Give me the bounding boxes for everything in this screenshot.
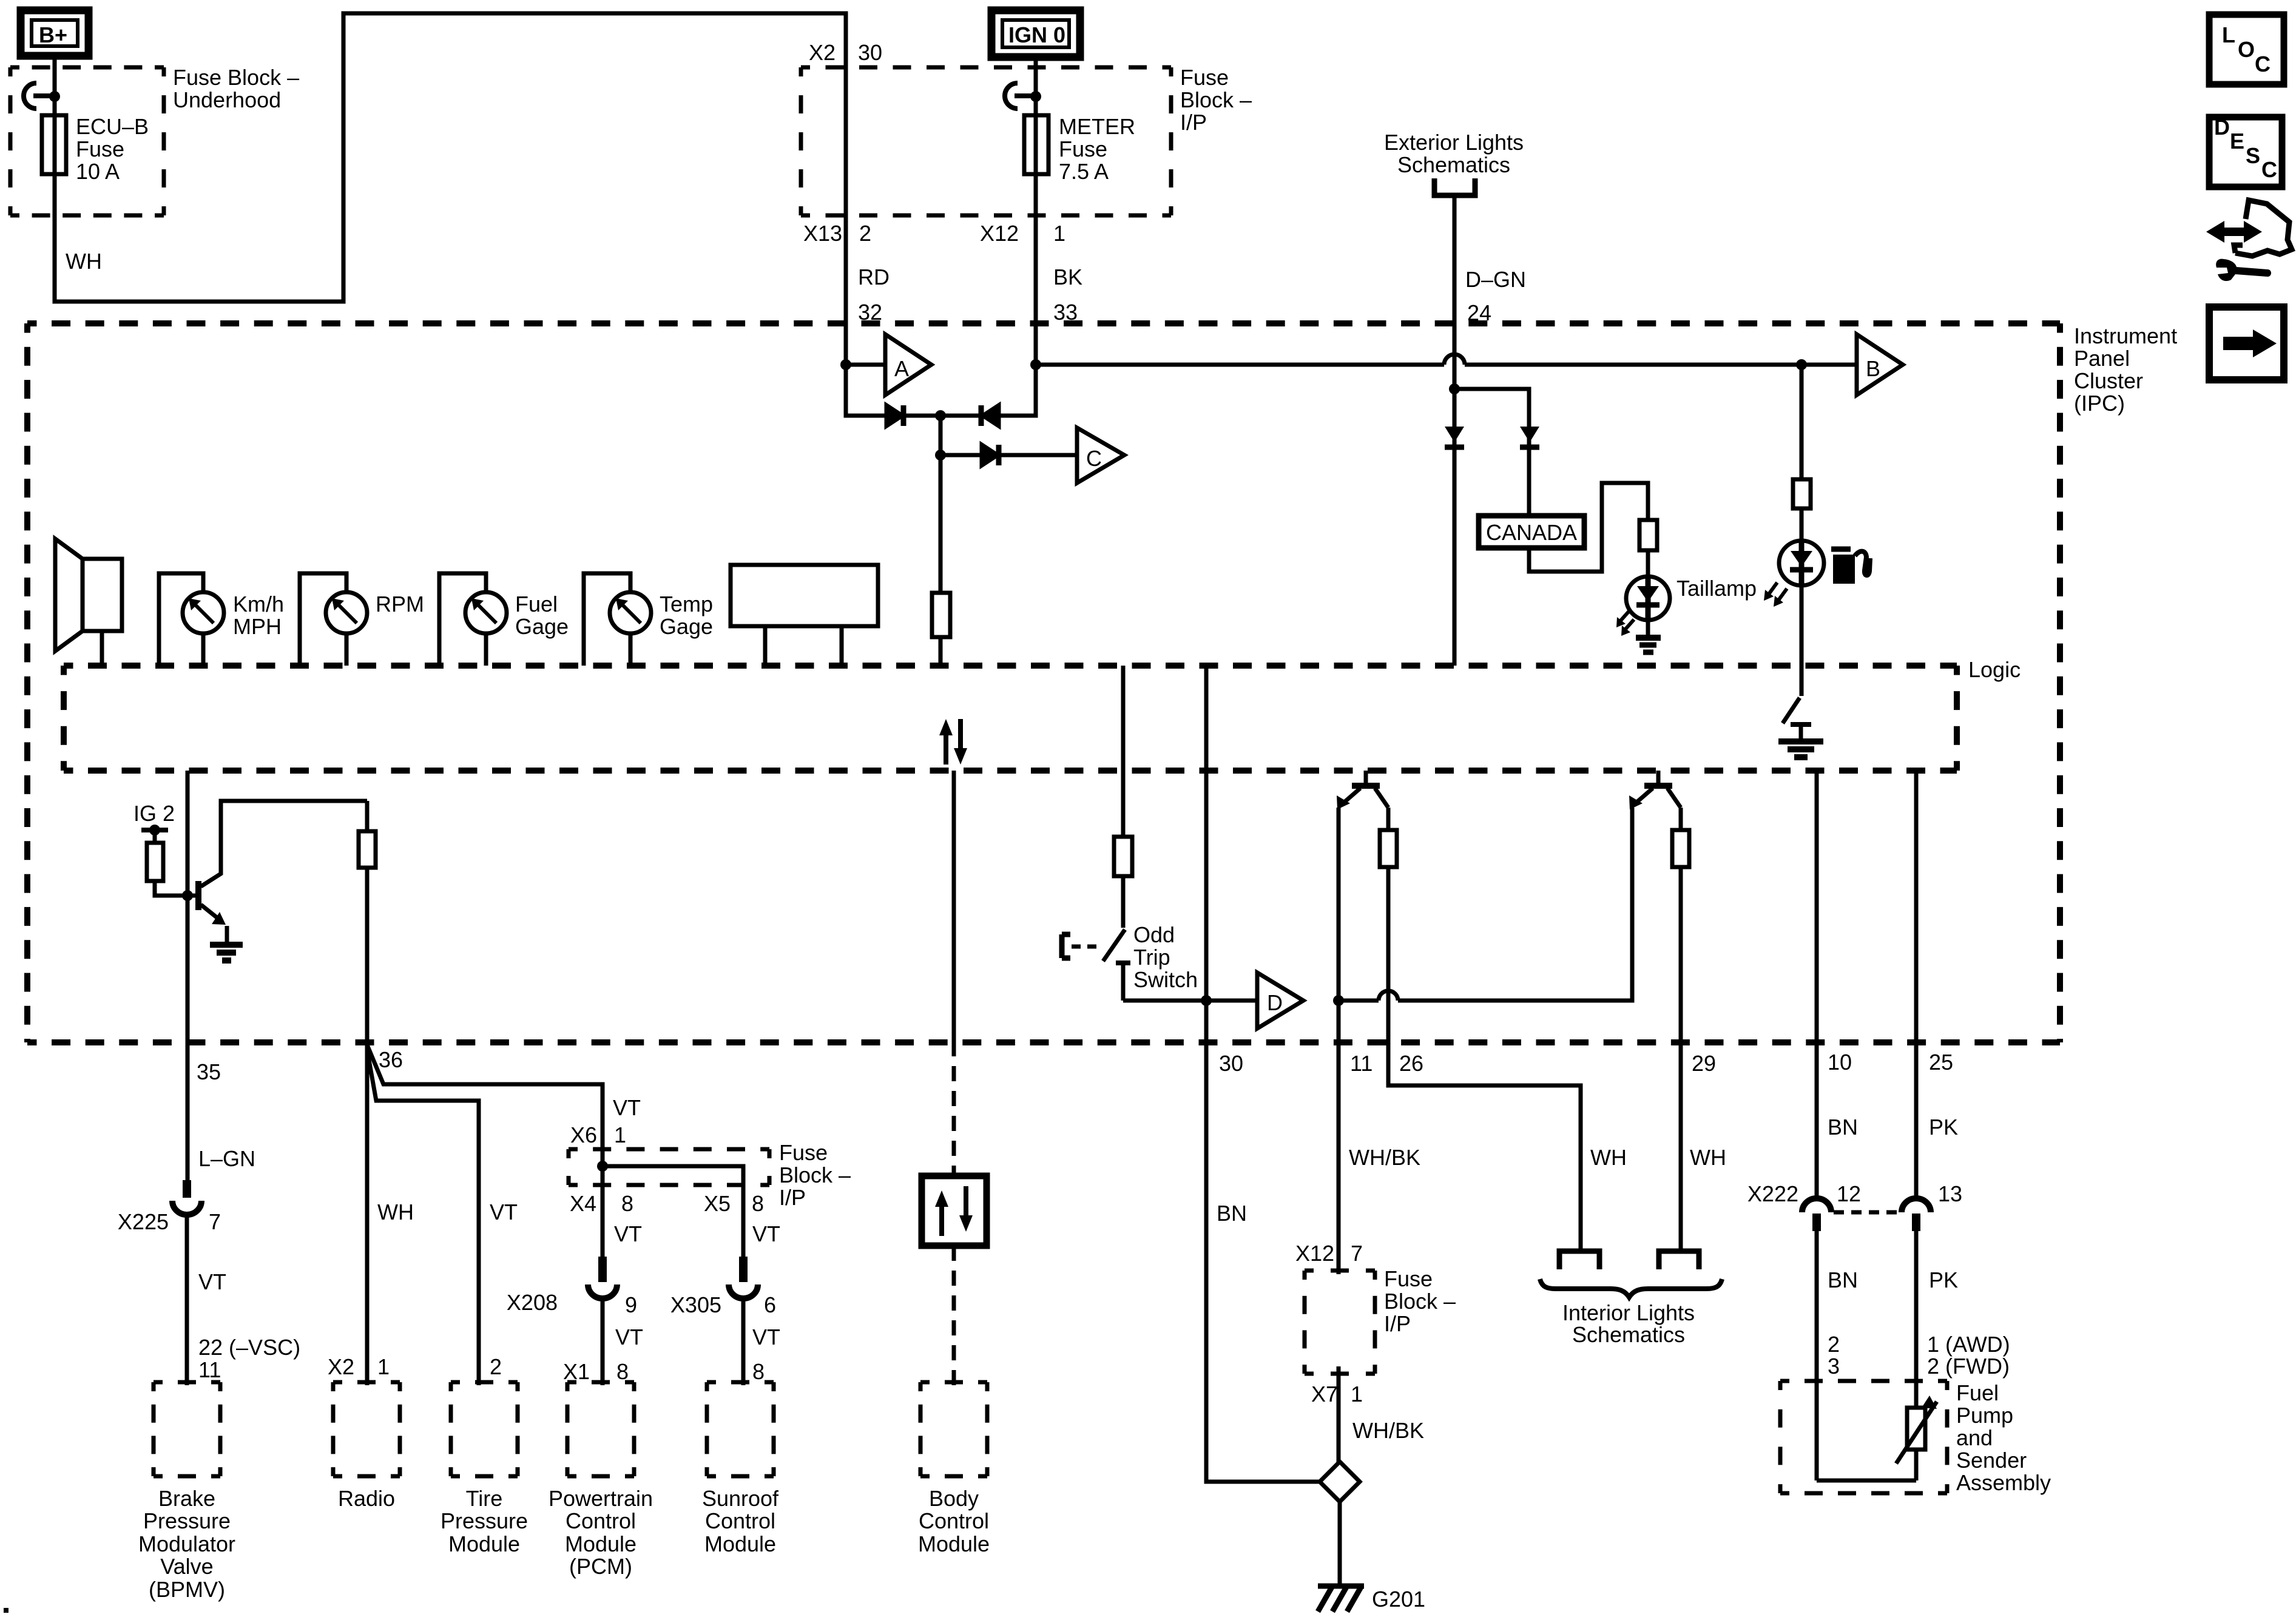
wire odd trip to D (1123, 999, 1257, 1003)
svg-text:7: 7 (209, 1209, 221, 1234)
node B+ power symbol (21, 10, 89, 56)
svg-text:WH/BK: WH/BK (1349, 1145, 1420, 1170)
ground below Q1 (210, 945, 243, 960)
svg-text:22 (–VSC): 22 (–VSC) (198, 1335, 300, 1360)
svg-text:L: L (2222, 22, 2235, 47)
wire fuel gauge branch from 33 line (1800, 365, 1804, 479)
fuse block underhood dashed box (10, 67, 164, 215)
svg-text:(BPMV): (BPMV) (149, 1577, 225, 1602)
svg-text:X13: X13 (803, 221, 842, 246)
transistor Q1 (198, 801, 367, 942)
pin labels 2 3 / 1 (AWD) 2 (FWD) (1828, 1332, 2010, 1379)
svg-text:8: 8 (621, 1191, 633, 1216)
label METER fuse (1059, 114, 1135, 184)
wire X225 to BPMV (185, 1214, 189, 1385)
svg-text:BK: BK (1053, 265, 1082, 289)
svg-text:3: 3 (1828, 1354, 1840, 1379)
wire 33 line to B with hop over D-GN (1030, 354, 1857, 370)
transistor Q3 (1629, 771, 1681, 809)
svg-text:I/P: I/P (1180, 110, 1207, 135)
buffer D triangle (1257, 973, 1303, 1028)
svg-text:BN: BN (1828, 1115, 1858, 1139)
switch and ground inside logic (fuel) (1778, 666, 1823, 757)
svg-text:Temp: Temp (660, 592, 713, 616)
diode D4 (1445, 445, 1464, 450)
svg-text:Brake: Brake (158, 1486, 215, 1511)
wire BN from 30 to splice (1206, 1042, 1320, 1482)
svg-text:26: 26 (1399, 1051, 1423, 1076)
pin labels X1 8 / 8 (563, 1359, 765, 1384)
pin labels 10 25 (1828, 1050, 1953, 1075)
connector X222 pin 13 (1902, 1198, 1931, 1231)
svg-text:B+: B+ (39, 22, 67, 47)
svg-text:2: 2 (490, 1354, 502, 1379)
pin label X2 30 (809, 40, 882, 65)
splice diamond (1320, 1462, 1360, 1502)
wires into PCM and sunroof (603, 1298, 743, 1385)
connector X208 (507, 1257, 637, 1317)
pin labels 11 26 29 (1350, 1051, 1716, 1076)
svg-text:D–GN: D–GN (1465, 267, 1526, 292)
svg-text:VT: VT (613, 1095, 641, 1120)
svg-text:I/P: I/P (779, 1185, 806, 1210)
svg-text:8: 8 (752, 1359, 765, 1384)
svg-text:11: 11 (198, 1357, 221, 1382)
icon LOC box (2209, 15, 2284, 84)
svg-text:(PCM): (PCM) (569, 1554, 632, 1579)
gauge Km/h MPH (159, 573, 284, 666)
node to C branch (935, 416, 1077, 465)
svg-text:10 A: 10 A (76, 159, 120, 184)
svg-text:WH: WH (377, 1200, 414, 1224)
wire WH to radio (365, 868, 370, 1385)
svg-text:X6: X6 (570, 1122, 597, 1147)
svg-text:Sender: Sender (1956, 1448, 2027, 1473)
svg-text:Taillamp: Taillamp (1676, 576, 1757, 601)
svg-text:1: 1 (614, 1122, 626, 1147)
resistor R5 on collector branch (359, 801, 376, 1042)
wire B+ to X2/30 (WH) (55, 13, 846, 365)
svg-text:A: A (894, 356, 909, 381)
resistor R4 IG2 (147, 843, 163, 881)
svg-text:Powertrain: Powertrain (549, 1486, 653, 1511)
icon fuel pump (1831, 549, 1870, 584)
pin label X7 1 (1311, 1382, 1363, 1406)
serial data box with arrows (922, 1176, 987, 1246)
svg-text:X222: X222 (1747, 1181, 1798, 1206)
label PCM (549, 1486, 653, 1579)
fuse block underhood label (173, 65, 299, 112)
off-page connector Exterior Lights Schematics (1384, 130, 1524, 387)
svg-text:Control: Control (919, 1508, 989, 1533)
module fuel pump dashed box (1780, 1381, 1947, 1493)
resistor R1 below diode node (932, 455, 950, 666)
svg-text:VT: VT (615, 1325, 643, 1349)
svg-text:Pressure: Pressure (143, 1508, 231, 1533)
svg-text:X225: X225 (118, 1209, 169, 1234)
svg-text:Valve: Valve (160, 1554, 213, 1579)
connector X225 (118, 1180, 221, 1234)
pin labels X2 1 / 2 (328, 1354, 502, 1379)
svg-text:1: 1 (377, 1354, 390, 1379)
diode D2 (979, 405, 984, 426)
svg-text:Fuse: Fuse (1180, 65, 1229, 90)
svg-text:Tire: Tire (466, 1486, 503, 1511)
label Fuel Pump and Sender Assembly (1956, 1380, 2051, 1495)
svg-text:Control: Control (566, 1508, 636, 1533)
fuse block I/P dashed box X12/X7 (1305, 1271, 1375, 1374)
dashed wire to body control module (952, 1246, 956, 1385)
labels X222 12 13 (1747, 1181, 1962, 1206)
gauge Temp Gage (584, 573, 713, 666)
svg-text:35: 35 (197, 1059, 221, 1084)
buffer B triangle (1857, 334, 1903, 395)
diode row between 32 and 33 wires (846, 365, 1036, 426)
svg-text:8: 8 (752, 1191, 764, 1216)
wire labels RD / BK (858, 265, 1082, 289)
wire 36 splice (367, 1045, 603, 1385)
pin labels X13 2 / X12 1 (803, 221, 1065, 246)
svg-text:E: E (2230, 129, 2244, 154)
wire labels BN PK (1828, 1115, 1958, 1139)
svg-text:9: 9 (625, 1292, 637, 1317)
svg-text:Radio: Radio (338, 1486, 395, 1511)
wire Q2 collector pin 26 (1380, 808, 1581, 1249)
svg-text:X7: X7 (1311, 1382, 1338, 1406)
svg-text:Module: Module (918, 1531, 990, 1556)
svg-text:2 (FWD): 2 (FWD) (1927, 1354, 2010, 1379)
svg-text:G201: G201 (1372, 1587, 1425, 1612)
connector X305 (670, 1257, 776, 1317)
svg-text:X5: X5 (704, 1191, 731, 1216)
label Body Control Module (918, 1486, 990, 1556)
wire to taillamp LED (1646, 550, 1650, 577)
module Sunroof dashed box (707, 1382, 774, 1476)
fuse ECU-B F1 10A (42, 115, 66, 174)
svg-text:30: 30 (858, 40, 882, 65)
pin label X6 1 (570, 1122, 626, 1147)
svg-text:Cluster: Cluster (2074, 368, 2143, 393)
svg-text:Module: Module (704, 1531, 776, 1556)
wire pin 30 vertical (1204, 666, 1209, 1042)
svg-text:10: 10 (1828, 1050, 1852, 1075)
svg-text:O: O (2238, 37, 2255, 62)
svg-text:1 (AWD): 1 (AWD) (1927, 1332, 2010, 1357)
module Body Control dashed box (920, 1382, 987, 1476)
svg-text:X208: X208 (507, 1290, 558, 1315)
svg-text:X305: X305 (670, 1292, 721, 1317)
fuse block I/P small dashed box (569, 1149, 769, 1185)
svg-text:Fuse Block –: Fuse Block – (173, 65, 299, 90)
svg-text:Fuse: Fuse (779, 1140, 828, 1165)
wire X4 to X208 (601, 1182, 605, 1257)
svg-text:D: D (2214, 115, 2230, 140)
instrument panel cluster IPC dashed box (27, 323, 2060, 1042)
svg-text:X4: X4 (570, 1191, 596, 1216)
wire splice to G201 (1338, 1502, 1342, 1586)
interior lights connector right (1659, 1251, 1699, 1269)
svg-text:Body: Body (929, 1486, 979, 1511)
svg-text:1: 1 (1053, 221, 1065, 246)
node IG 2 (133, 801, 175, 843)
wire fuel LED to logic (1800, 586, 1804, 666)
svg-text:Trip: Trip (1133, 945, 1170, 970)
connector E to odd trip switch (1062, 934, 1099, 958)
svg-text:29: 29 (1692, 1051, 1716, 1076)
wire pin 35 vertical (186, 771, 190, 1180)
svg-text:and: and (1956, 1425, 1993, 1450)
speaker (55, 539, 122, 666)
wire X7 to splice (1337, 1366, 1341, 1462)
svg-text:Exterior Lights: Exterior Lights (1384, 130, 1524, 155)
svg-text:RD: RD (858, 265, 890, 289)
brace interior lights (1540, 1279, 1722, 1297)
svg-text:VT: VT (490, 1200, 518, 1224)
wire logic to serial data box (952, 771, 956, 1041)
svg-text:Sunroof: Sunroof (702, 1486, 779, 1511)
svg-text:Pump: Pump (1956, 1403, 2013, 1428)
label Sunroof Control Module (702, 1486, 779, 1556)
wires X222 to fuel pump (1817, 1231, 1916, 1480)
transistor Q2 (1337, 771, 1388, 809)
ground G201 (1318, 1586, 1425, 1612)
svg-text:Logic: Logic (1968, 657, 2021, 682)
svg-text:X12: X12 (980, 221, 1019, 246)
wire pin 10 BN (1815, 771, 1819, 1197)
diode D1 (886, 405, 902, 426)
svg-text:WH: WH (1590, 1145, 1627, 1170)
wire labels BN PK lower (1828, 1268, 1958, 1292)
svg-text:ECU–B: ECU–B (76, 114, 149, 139)
svg-text:13: 13 (1938, 1181, 1962, 1206)
CANADA box (1479, 516, 1584, 548)
fuse METER F2 7.5A (1024, 115, 1048, 174)
odometer display box (731, 565, 878, 666)
svg-text:Gage: Gage (515, 614, 569, 639)
svg-text:Module: Module (448, 1531, 520, 1556)
label BPMV (138, 1486, 235, 1602)
svg-text:7: 7 (1351, 1241, 1363, 1266)
gauge RPM (300, 573, 424, 666)
icon arrow box (2209, 307, 2284, 380)
wire IGN0 to meter fuse (1034, 57, 1038, 365)
wire D-GN branch into IPC (1445, 383, 1464, 666)
icon DESC box (2209, 115, 2282, 187)
svg-text:2: 2 (1828, 1332, 1840, 1357)
svg-text:METER: METER (1059, 114, 1135, 139)
wire IG2 to Q1 base (155, 881, 197, 896)
variable resistor fuel sender (1817, 1396, 1937, 1480)
pin labels X4 8 X5 8 (570, 1191, 764, 1216)
svg-text:VT: VT (752, 1221, 780, 1246)
svg-text:BN: BN (1828, 1268, 1858, 1292)
gauge Fuel Gage (439, 573, 569, 666)
resistor R2 taillamp (1639, 520, 1657, 550)
connector X222 pin 12 (1802, 1198, 1831, 1231)
svg-text:Gage: Gage (660, 614, 713, 639)
svg-text:Schematics: Schematics (1572, 1322, 1685, 1347)
wire 32 feed to A (846, 363, 885, 367)
svg-text:36: 36 (379, 1047, 403, 1072)
ground below taillamp (1636, 618, 1661, 652)
svg-text:7.5 A: 7.5 A (1059, 159, 1109, 184)
svg-text:Fuse: Fuse (1059, 137, 1107, 161)
svg-text:BN: BN (1217, 1201, 1247, 1226)
svg-text:IG 2: IG 2 (133, 801, 175, 826)
svg-text:Pressure: Pressure (441, 1508, 528, 1533)
interior lights connector left (1559, 1251, 1599, 1269)
svg-text:Fuse: Fuse (76, 137, 124, 161)
svg-text:RPM: RPM (376, 592, 424, 616)
svg-text:Interior Lights: Interior Lights (1562, 1300, 1695, 1325)
svg-text:D: D (1267, 990, 1283, 1015)
svg-text:25: 25 (1929, 1050, 1953, 1075)
svg-text:X12: X12 (1295, 1241, 1334, 1266)
svg-text:L–GN: L–GN (198, 1146, 255, 1171)
IPC label (2074, 323, 2177, 416)
svg-text:VT: VT (752, 1325, 780, 1349)
svg-text:MPH: MPH (233, 614, 282, 639)
svg-text:12: 12 (1837, 1181, 1861, 1206)
label fuse block I/P bottom (1384, 1266, 1456, 1336)
module PCM dashed box (567, 1382, 634, 1476)
svg-text:Schematics: Schematics (1397, 152, 1510, 177)
wire Q2 emitter pin 11 (1337, 808, 1341, 1274)
svg-text:PK: PK (1929, 1268, 1958, 1292)
icon double arrow with part outline and wrench (2206, 200, 2292, 281)
logic dashed box (64, 666, 1957, 771)
svg-text:Fuel: Fuel (1956, 1380, 1999, 1405)
svg-text:WH: WH (66, 249, 102, 274)
connector hook in I/P fuse block (1005, 83, 1041, 109)
odd trip switch branch (1103, 666, 1132, 1001)
module Tire Pressure dashed box (451, 1382, 518, 1476)
svg-text:C: C (2255, 52, 2271, 76)
svg-text:CANADA: CANADA (1486, 520, 1577, 545)
wire pin 25 PK (1914, 771, 1919, 1197)
svg-text:VT: VT (198, 1269, 226, 1294)
label Interior Lights Schematics (1562, 1300, 1695, 1347)
svg-text:30: 30 (1219, 1051, 1243, 1076)
node IGN 0 power symbol (991, 10, 1080, 57)
svg-text:6: 6 (764, 1292, 776, 1317)
svg-text:C: C (1086, 446, 1102, 471)
svg-text:Instrument: Instrument (2074, 323, 2177, 348)
svg-text:IGN 0: IGN 0 (1008, 22, 1065, 47)
diode D3 (982, 445, 998, 465)
label Odd Trip Switch (1133, 922, 1198, 992)
pin label X12 7 (1295, 1241, 1363, 1266)
svg-text:Block –: Block – (779, 1163, 851, 1187)
label Tire Pressure Module (441, 1486, 528, 1556)
signal arrows inside logic (939, 719, 967, 765)
svg-text:X2: X2 (328, 1354, 354, 1379)
wire labels WH/BK WH WH (1349, 1145, 1726, 1170)
svg-text:(IPC): (IPC) (2074, 391, 2125, 416)
svg-text:Block –: Block – (1180, 87, 1252, 112)
light arrows (1619, 611, 1634, 630)
LED fuel indicator (1764, 541, 1824, 607)
connector hook in underhood fuse block (24, 83, 60, 109)
svg-text:X2: X2 (809, 40, 836, 65)
module BPMV dashed box (154, 1382, 220, 1476)
branch to CANADA (1454, 389, 1539, 516)
svg-text:PK: PK (1929, 1115, 1958, 1139)
stray mark bottom left (4, 1608, 8, 1613)
svg-text:Switch: Switch (1133, 967, 1198, 992)
svg-text:Km/h: Km/h (233, 592, 284, 616)
resistor R3 fuel indicator (1793, 479, 1811, 508)
wire Q3 collector pin 29 (1672, 808, 1689, 1249)
dashed link X222 (1834, 1210, 1899, 1215)
svg-text:I/P: I/P (1384, 1311, 1411, 1336)
svg-text:Control: Control (705, 1508, 775, 1533)
fuse block I/P label (1180, 65, 1252, 135)
svg-text:11: 11 (1350, 1051, 1373, 1076)
wire CANADA to taillamp resistor (1529, 483, 1648, 572)
svg-text:Underhood: Underhood (173, 87, 281, 112)
svg-text:2: 2 (859, 221, 871, 246)
svg-text:S: S (2246, 143, 2260, 168)
svg-text:B: B (1866, 356, 1880, 381)
buffer C triangle (1077, 428, 1124, 483)
svg-text:Odd: Odd (1133, 922, 1175, 947)
svg-text:Module: Module (565, 1531, 636, 1556)
wires inside small fuse block (597, 1149, 743, 1188)
wire labels VT below connectors (615, 1325, 780, 1349)
pin labels 32 / 33 (858, 300, 1078, 325)
LED taillamp (1616, 576, 1670, 636)
svg-text:Panel: Panel (2074, 346, 2130, 371)
label fuse block I/P small (779, 1140, 851, 1210)
svg-text:WH: WH (1690, 1145, 1726, 1170)
svg-text:C: C (2261, 157, 2277, 182)
svg-text:Block –: Block – (1384, 1289, 1456, 1314)
svg-text:WH/BK: WH/BK (1352, 1418, 1424, 1443)
wire X5 to X305 (741, 1182, 746, 1257)
svg-text:VT: VT (614, 1221, 642, 1246)
svg-text:Modulator: Modulator (138, 1531, 235, 1556)
svg-text:1: 1 (1351, 1382, 1363, 1406)
wire labels VT (614, 1221, 780, 1246)
module Radio dashed box (333, 1382, 400, 1476)
fuse block I/P dashed box (top) (801, 67, 1171, 215)
wire D output with hop to Q3 emitter (1339, 808, 1632, 1001)
buffer A triangle (885, 334, 931, 395)
svg-text:Assembly: Assembly (1956, 1470, 2051, 1495)
label ECU-B fuse (76, 114, 149, 184)
svg-text:Fuse: Fuse (1384, 1266, 1433, 1291)
svg-text:Fuel: Fuel (515, 592, 558, 616)
